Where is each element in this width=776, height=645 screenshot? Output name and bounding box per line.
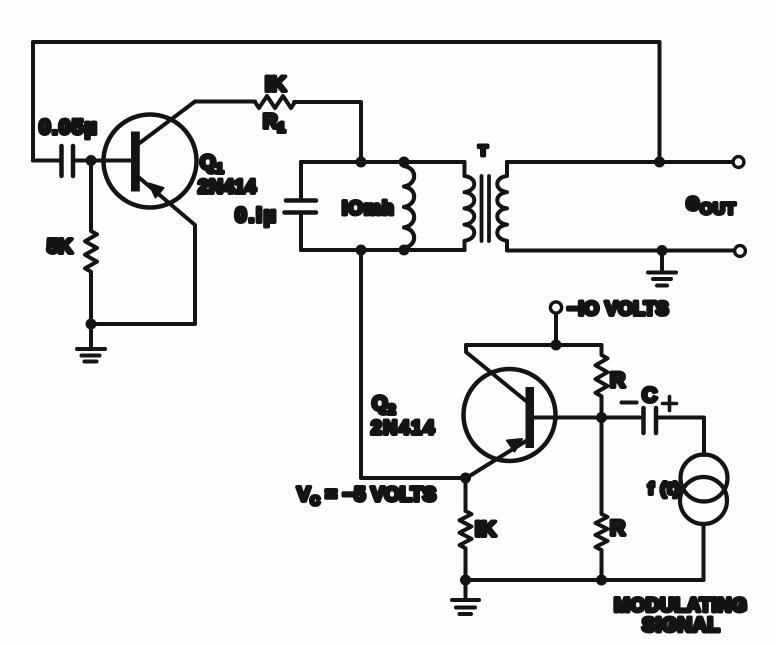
wire: capacitor C to f(t) source	[658, 418, 704, 456]
capacitor 0.05u plates	[62, 146, 74, 176]
wire: tank bottom rail	[301, 248, 465, 252]
transformer T secondary coil	[497, 162, 507, 250]
ground G1 (Q1 emitter)	[77, 324, 105, 362]
wire: Q1 collector to resistor R1	[195, 100, 255, 104]
terminal: output bottom	[735, 246, 746, 257]
inductor 10mh	[404, 162, 414, 250]
transistor Q2 base lead	[534, 416, 602, 420]
svg-text:0.05µ: 0.05µ	[39, 116, 98, 139]
svg-text:OUT: OUT	[700, 201, 736, 218]
node: bottom rail at ground	[657, 245, 668, 256]
transistor Q1 collector lead	[139, 102, 195, 144]
terminal: -10 VOLTS supply	[550, 302, 561, 313]
svg-text:IK: IK	[265, 73, 286, 96]
svg-text:IK: IK	[475, 518, 496, 541]
node: tank top left	[356, 157, 367, 168]
node: Q2 base junction	[596, 412, 607, 423]
svg-text:T: T	[479, 143, 488, 160]
wire: capacitor to Q1 base	[75, 159, 130, 163]
node: feedback joins top rail	[654, 157, 665, 168]
svg-text:5K: 5K	[47, 236, 73, 258]
node: tank bottom left	[356, 245, 367, 256]
wire: lead into 0.05u capacitor	[33, 159, 59, 163]
transistor Q2 emitter lead	[466, 441, 527, 479]
transistor Q1 base bar	[131, 132, 140, 192]
transistor Q2 base bar	[526, 387, 535, 448]
terminal: output top	[733, 157, 744, 168]
ground G3 (Q2)	[452, 580, 479, 614]
node: 5K / emitter return junction	[86, 319, 97, 330]
svg-text:IOmh: IOmh	[342, 199, 395, 220]
svg-text:2N414: 2N414	[198, 177, 257, 198]
capacitor C plates	[644, 408, 657, 433]
svg-text:−IO VOLTS: −IO VOLTS	[567, 299, 669, 320]
transformer T primary coil	[465, 162, 475, 250]
capacitor 0.1u plates	[285, 201, 317, 213]
node: emitter resistor to ground rail	[460, 575, 471, 586]
capacitor 0.1u bottom lead	[299, 213, 303, 250]
wire: R1 to tank circuit top	[294, 102, 361, 162]
svg-text:R: R	[610, 369, 625, 392]
wire: output top rail	[507, 160, 732, 164]
svg-text:f (t): f (t)	[648, 479, 680, 498]
transistor Q1 circle	[104, 115, 197, 208]
wire: tank to Q2 collector node	[361, 250, 466, 478]
wire: modulating bottom rail	[466, 578, 704, 582]
label plus	[663, 397, 677, 411]
source f(t) circle 1	[681, 455, 728, 502]
resistor R (lower bias)	[596, 418, 608, 581]
capacitor 0.1u top lead	[299, 162, 303, 200]
node: tank top right	[399, 157, 410, 168]
svg-text:e: e	[686, 189, 699, 216]
resistor R (upper bias)	[596, 345, 608, 418]
svg-text:R1: R1	[263, 111, 285, 135]
label minus	[622, 401, 637, 405]
svg-text:C: C	[642, 384, 657, 407]
node: tank bottom right	[399, 245, 410, 256]
svg-text:SIGNAL: SIGNAL	[642, 615, 720, 637]
transformer T core	[482, 176, 490, 241]
wire: feedback loop from Q1 input to output top rail	[33, 42, 660, 161]
resistor 5K	[85, 161, 97, 325]
transistor Q2 emitter arrow (PNP)	[507, 439, 522, 452]
source f(t) circle 2	[680, 477, 727, 524]
svg-text:R: R	[610, 517, 625, 540]
wire: output bottom rail	[507, 249, 734, 253]
transistor Q2 collector lead	[466, 345, 526, 401]
svg-text:Q1: Q1	[200, 152, 224, 176]
wire: supply terminal to Q2 rail	[554, 314, 558, 345]
wire: f(t) to bottom rail	[702, 524, 706, 580]
wire: tank top rail	[301, 160, 465, 164]
svg-text:0.Iµ: 0.Iµ	[235, 204, 278, 227]
transistor Q2 circle	[464, 369, 556, 461]
svg-text:MODULATING: MODULATING	[614, 596, 747, 617]
transistor Q1 emitter lead	[91, 178, 195, 325]
node: Q2 emitter junction	[460, 473, 471, 484]
resistor R1 1K zigzag	[255, 96, 295, 108]
transistor Q1 emitter arrow (PNP)	[149, 184, 164, 198]
node: bottom rail junction	[596, 575, 607, 586]
ground G2 (output)	[648, 251, 676, 286]
wire: Q2 top rail	[466, 343, 602, 347]
node: supply junction	[551, 340, 562, 351]
svg-text:VC = −5 VOLTS: VC = −5 VOLTS	[297, 484, 436, 508]
svg-text:Q2: Q2	[372, 393, 396, 417]
resistor 1K (Q2 emitter)	[460, 478, 472, 580]
node: Q1 base junction	[86, 155, 97, 166]
wire: base node to capacitor C	[602, 416, 641, 420]
svg-text:2N414: 2N414	[371, 418, 436, 439]
